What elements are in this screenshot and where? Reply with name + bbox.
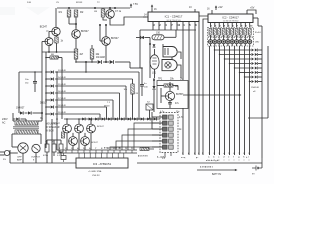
svg-text:o: o (229, 160, 230, 162)
battery B1 (252, 166, 262, 176)
wire transistor col c (90, 119, 92, 150)
IC1 pin16 top (151, 4, 157, 12)
wire diode feed 8 (249, 81, 251, 82)
svg-text:o: o (239, 160, 240, 162)
transistor T8 (53, 123, 71, 133)
wire rung drop f (99, 114, 101, 119)
diode ladder D9 (51, 112, 67, 116)
wire dip row 5 in (152, 140, 163, 142)
wire mid rail a (199, 16, 208, 155)
wire bundle v5 (229, 46, 231, 155)
svg-text:BC547: BC547 (53, 123, 60, 125)
LED L6 (230, 35, 234, 46)
LED L2 (213, 35, 217, 46)
wire dip col left (151, 112, 153, 129)
conn right pin 3 (218, 153, 220, 162)
IC2 label (222, 16, 239, 23)
LED L7 (235, 35, 239, 46)
svg-text:D6 4148: D6 4148 (58, 91, 66, 93)
svg-text:IF SPEAKER: IF SPEAKER (46, 126, 60, 129)
transistor T2 BD139 (106, 10, 122, 19)
wire T3 emitter down (75, 38, 77, 49)
wire bottom long rail (10, 150, 76, 163)
diode chain D37 (128, 117, 131, 120)
svg-text:M100: M100 (104, 106, 110, 108)
wire bundle v7 (239, 46, 241, 155)
LED L3 (217, 35, 221, 46)
wire diode out 6 (258, 72, 262, 74)
wire bundle v4 (224, 46, 226, 155)
node junction top rail B (94, 7, 96, 9)
wire mid verticals (150, 30, 195, 46)
gate U2 (162, 60, 177, 71)
capacitor C6 (57, 144, 63, 157)
diode chain D31 (89, 117, 92, 120)
svg-text:IN BOX: IN BOX (46, 131, 54, 133)
svg-text:AC: AC (2, 122, 6, 125)
IC3 pin stub 1 (78, 153, 80, 158)
resistor RN7 (235, 29, 238, 36)
svg-text:3 2 4 7 10 1 5 6: 3 2 4 7 10 1 5 6 (167, 20, 182, 22)
resistor R1 (59, 10, 71, 17)
resistor RN10 (248, 29, 251, 36)
diode chain D38 (134, 117, 137, 120)
svg-text:150: 150 (156, 32, 161, 35)
svg-text:IC3 - AT89C51: IC3 - AT89C51 (93, 162, 112, 166)
capacitor C2 (25, 79, 37, 85)
wire T5 wiring (161, 82, 170, 103)
svg-text:AMP: AMP (17, 159, 22, 162)
LED L8 (239, 35, 243, 46)
wire left col down (153, 78, 155, 112)
diode ladder D3 (51, 70, 67, 74)
label under box (160, 111, 180, 113)
diode D11 (141, 36, 144, 39)
svg-text:e: e (228, 156, 229, 158)
diode D1 1N4148 (96, 56, 105, 64)
IC2 pin stub 10 (250, 23, 253, 28)
IC3 pin stub 6 (106, 153, 108, 158)
wire rung drop c (119, 93, 121, 119)
wire T1b emitter (48, 46, 50, 53)
wire R2 bottom (75, 17, 77, 28)
IC1 pin 10 stub (177, 22, 181, 27)
svg-text:D3 4148: D3 4148 (58, 70, 66, 72)
transistor T1 BC547 (40, 26, 61, 37)
wire diode out 8 (258, 81, 262, 83)
bottom pin tick 9 (107, 148, 108, 153)
bottom pin tick 12 (125, 148, 127, 153)
wire bundle v6 (234, 46, 236, 155)
node junction top rail C (114, 7, 116, 9)
capacitor C5 (52, 141, 56, 153)
wire xfmr sec out (12, 134, 41, 147)
node ladder 4 (45, 92, 47, 94)
wire top rail (57, 7, 130, 9)
diode D14 bridge (20, 111, 23, 114)
diode column D24 (252, 67, 258, 70)
wire col 150 down (149, 43, 151, 78)
wire R5 left (157, 86, 178, 91)
IC2 pin16 top (207, 5, 223, 14)
node ladder 1 (45, 71, 47, 73)
IC3 pin stub 3 (89, 153, 91, 158)
svg-text:CHP: CHP (17, 157, 22, 159)
svg-text:3: 3 (71, 148, 72, 150)
IC3 pin stub 7 (112, 153, 114, 158)
svg-text:1N4148: 1N4148 (251, 87, 259, 89)
dip switch cell 5 (163, 139, 174, 143)
conn right pin 6 (233, 153, 235, 162)
diode column D25 (252, 71, 258, 74)
LED L4 (222, 35, 226, 46)
node ladder 7 (45, 113, 47, 115)
svg-text:D7 4148: D7 4148 (58, 98, 66, 100)
wire T1 base link (49, 32, 52, 38)
wire 86 junction (85, 61, 87, 73)
IC3 box (76, 158, 128, 168)
wire bundle v9 (249, 46, 251, 155)
diode column D26 (252, 76, 258, 79)
svg-text:p r: p r (196, 157, 199, 159)
svg-text:+5 GND XTAL: +5 GND XTAL (88, 170, 103, 173)
transistor T10 (87, 124, 105, 133)
label 7.5V arrow (130, 3, 139, 8)
node ladder 2 (45, 78, 47, 80)
diode ladder D4 (51, 77, 67, 81)
diode chain D40 (147, 117, 150, 120)
wire circle stubs (10, 152, 61, 163)
bottom pin tick 13 (131, 148, 133, 153)
wire R1 bottom (68, 17, 70, 24)
transformer X1 secondary (15, 130, 38, 134)
node chain junctions (66, 118, 153, 120)
wire right box bottom (248, 117, 268, 119)
svg-text:D8 4148: D8 4148 (58, 105, 66, 107)
wire dip stair 5 (110, 147, 163, 150)
wire bottom rail right (137, 158, 262, 168)
crystal X3 (61, 153, 66, 162)
IC2 CD4017 box (208, 14, 253, 23)
diode column D21 (252, 53, 258, 56)
diode ladder D5 (51, 84, 67, 88)
diode D2 1N4148 (110, 60, 114, 64)
wire bridge2 (13, 119, 26, 121)
diode D16 bridge2 (16, 118, 19, 121)
resistor RN4 (222, 29, 225, 36)
wire rung drop b (125, 86, 127, 119)
label chain (104, 102, 111, 108)
conn right pin 4 (223, 152, 225, 162)
IC2 pin stub 8 (241, 23, 243, 28)
wire dip stair 2 (128, 129, 163, 150)
svg-text:D9 4148: D9 4148 (58, 112, 66, 114)
wire transistor col a (66, 119, 68, 150)
IC1 pin14 left (143, 15, 148, 18)
diode ladder D8 (51, 105, 67, 109)
node junction top rail A (68, 7, 70, 9)
wire transistor col e (84, 133, 86, 150)
wire D11 (136, 37, 150, 39)
resistor row label (255, 32, 261, 34)
wire rung drop d (112, 100, 114, 119)
IC2 pin stub 5 (228, 23, 230, 28)
svg-text:BC547: BC547 (91, 142, 98, 144)
svg-text:1 2 3 4 5 6 7 8 9 10: 1 2 3 4 5 6 7 8 9 10 (223, 21, 239, 23)
diode column D23 (252, 62, 258, 65)
svg-text:R x10: R x10 (255, 32, 261, 34)
diode chain D35 (115, 117, 118, 120)
wire ladder rung 1 (46, 71, 139, 73)
svg-text:IC1 - CD4017: IC1 - CD4017 (165, 14, 183, 18)
svg-text:BC547: BC547 (97, 126, 104, 128)
resistor RN9 (244, 29, 247, 36)
wire diode feed 2 (219, 54, 251, 55)
wire T1 emitter (55, 36, 58, 37)
wire far right rail (267, 46, 269, 118)
wire diode out 2 (258, 54, 262, 56)
wire base T3 from divider (75, 24, 77, 30)
svg-text:+5V: +5V (250, 7, 255, 10)
capacitor C13 (134, 83, 148, 95)
gate U1 (163, 47, 178, 57)
svg-text:D4 4148: D4 4148 (58, 77, 66, 79)
diode column D22 (252, 58, 258, 61)
wire R9 bottom (103, 17, 107, 20)
IC3 pin stub 8 (117, 153, 119, 158)
dip bottom stubs (162, 153, 171, 161)
IC1 pin 6 stub (195, 22, 197, 27)
label 0-disp (157, 156, 166, 159)
wire dip row 2 in (152, 122, 163, 124)
IC3 label (93, 162, 112, 166)
node ladder 6 (45, 106, 47, 108)
resistor R10 (140, 148, 154, 151)
wire ladder rung 2 (46, 78, 133, 80)
wire IC1 pin bus (140, 29, 196, 31)
svg-text:6 - DISP: 6 - DISP (157, 156, 166, 159)
wire diode out 7 (258, 76, 262, 78)
diode D15 bridge (28, 111, 31, 114)
IC2 pin15 right (253, 18, 258, 26)
svg-text:7: 7 (95, 148, 96, 150)
wire bundle v1 (209, 46, 211, 155)
conn right labels (206, 160, 220, 162)
IC3 pin stub 4 (95, 153, 97, 158)
IC2 pin stub 1 (211, 23, 213, 28)
svg-text:1N4148: 1N4148 (96, 56, 105, 59)
svg-text:DB107: DB107 (40, 103, 48, 105)
wire X2 leg (149, 110, 151, 119)
dip switch cell 2 (163, 121, 174, 125)
capacitor C3 electrolytic (168, 101, 179, 108)
plug P1 (0, 150, 10, 161)
svg-text:8 9 10 11 12 13 14: 8 9 10 11 12 13 14 (104, 147, 121, 150)
IC2 pin stub 7 (237, 23, 239, 28)
dip switch cell 6 (163, 145, 174, 149)
resistor R11 (61, 132, 64, 138)
IC2 pin stub 3 (219, 23, 221, 28)
wire diode feed 3 (224, 58, 251, 59)
mid rail end labels (181, 153, 204, 159)
conn right pin 9 (248, 153, 250, 162)
diode chain D32 (95, 117, 98, 120)
wire diode feed 4 (229, 63, 251, 64)
LED row label (255, 42, 260, 44)
bottom pin tick 7 (95, 148, 96, 153)
svg-text:C7 1u: C7 1u (115, 11, 122, 13)
diode ladder D6 (51, 91, 67, 95)
diode chain D33 (102, 117, 105, 120)
wire dip stair 1 (134, 123, 163, 150)
labels TP row (158, 79, 183, 81)
LED L10 (248, 35, 252, 46)
resistor R5 (164, 84, 179, 88)
resistor R9 (94, 9, 105, 17)
resistor RN6 (231, 29, 234, 36)
svg-text:o: o (234, 160, 235, 162)
wire xfmr taps (13, 113, 42, 121)
svg-text:BC547: BC547 (111, 37, 119, 40)
resistor RN1 (209, 29, 212, 36)
conn under-rail labels (200, 165, 214, 168)
resistor R2 (74, 10, 84, 17)
dip labels (179, 117, 184, 131)
diode chain D30 (82, 117, 85, 120)
battery label (212, 173, 222, 176)
amp box (157, 81, 188, 109)
transformer label (2, 117, 44, 125)
svg-text:IC2 - CD4017: IC2 - CD4017 (222, 16, 239, 20)
diode D12 on col (153, 44, 156, 47)
wire T2 emitter to step (110, 17, 146, 25)
wire diode feed 7 (244, 76, 251, 77)
wire mid rail b (203, 19, 208, 155)
svg-text:BC547: BC547 (81, 30, 89, 33)
wire dip row 6 in (152, 146, 163, 148)
conn right pin 8 (243, 153, 245, 162)
svg-text:R2 R3: R2 R3 (76, 2, 83, 4)
svg-text:1N4007: 1N4007 (16, 107, 25, 110)
resistor RN2 (213, 29, 216, 36)
svg-text:BC547: BC547 (40, 26, 48, 29)
svg-text:BATT 9V: BATT 9V (212, 173, 222, 176)
resistor R4 oval (152, 32, 164, 40)
resistor RN5 (226, 29, 229, 36)
wire C2 legs (34, 71, 36, 92)
conn right pin 1 (208, 153, 210, 162)
resistor R12 (74, 49, 84, 59)
svg-text:VSS 9V: VSS 9V (92, 175, 100, 177)
arrow to right (183, 94, 242, 96)
transistor T3 BC547 (72, 30, 90, 39)
wire T1b base (42, 42, 45, 53)
wire transistor col d (72, 133, 74, 150)
svg-text:7.5V: 7.5V (133, 3, 138, 6)
IC1 pin 3 stub (153, 22, 155, 27)
wire T4 collector (105, 24, 107, 37)
wire gates S-link (163, 44, 181, 60)
label bottom right corner (246, 156, 248, 159)
svg-text:D5 4148: D5 4148 (58, 84, 66, 86)
bottom pin tick 8 (101, 148, 102, 153)
wire bottom pin bus (57, 150, 137, 153)
IC3 pin stub 2 (84, 153, 86, 158)
wire bundle v8 (244, 46, 246, 155)
wire bus vertical left (41, 52, 43, 120)
bottom pin tick 4 (77, 147, 79, 153)
wire ladder rung 7 (46, 113, 100, 115)
IC1 pin 7 stub (171, 22, 173, 27)
wire bundle v2 (214, 46, 216, 155)
labels top edge (27, 2, 100, 4)
IC1 pin13 top right (189, 7, 195, 12)
IC2 pin stub 4 (224, 23, 226, 28)
bottom pin tick 1 (59, 148, 60, 153)
wire bundle v3 (219, 46, 221, 155)
wire IC1 bus drops (153, 26, 195, 30)
transistor T4 BC547 (102, 37, 120, 46)
wire R4 to right (164, 30, 176, 37)
IC2 pin stub 6 (232, 23, 234, 28)
wire vertical from top rail left (55, 8, 57, 27)
IC1 CD4017 box (148, 12, 199, 22)
label D5 D6 (16, 103, 48, 110)
dip switch cell 3 (163, 127, 174, 131)
diode chain D39 (141, 117, 144, 120)
note text block (46, 124, 60, 133)
wire diode feed 5 (234, 67, 251, 68)
svg-text:1: 1 (59, 148, 60, 150)
capacitor C4 (43, 141, 49, 158)
wire bus right vertical (46, 119, 52, 163)
svg-text:o: o (224, 160, 225, 162)
wire rung1 end down (138, 72, 140, 119)
transistor T6 circle (18, 143, 28, 153)
svg-text:LED: LED (255, 42, 260, 44)
node ladder 5 (45, 99, 47, 101)
svg-text:x o q: x o q (181, 157, 185, 159)
svg-text:+9V: +9V (218, 6, 223, 9)
wire right rail top (258, 25, 262, 27)
LED L1 (208, 35, 212, 46)
transistor T7 circle (32, 144, 40, 152)
dip switch cell 1 (163, 115, 174, 119)
IC3 pin stub 9 (123, 153, 125, 158)
bottom pin tick 5 (83, 148, 84, 153)
svg-text:R1: R1 (59, 10, 63, 14)
wire bridge (19, 112, 43, 114)
bottom left labels (17, 157, 41, 162)
LED L9 (243, 35, 247, 46)
resistor R3 (55, 37, 64, 43)
wire dip row 1 in (152, 116, 163, 118)
wire dip row 3 in (152, 128, 163, 130)
wire ladder rung 3 (46, 85, 126, 87)
component X2 box (146, 102, 153, 111)
transistor T5 (165, 91, 184, 100)
wire diode out 4 (258, 63, 262, 65)
wire T4 emitter down (105, 45, 107, 62)
conn right pin 2 (213, 153, 215, 162)
svg-text:13: 13 (131, 148, 133, 150)
IC3 sublabels (88, 170, 103, 177)
IC3 pin stub 5 (100, 153, 102, 158)
resistor R13 (90, 45, 100, 63)
LED L5 (226, 35, 230, 46)
mid conn labels (104, 147, 148, 158)
wire dip stair 3 (122, 135, 163, 150)
